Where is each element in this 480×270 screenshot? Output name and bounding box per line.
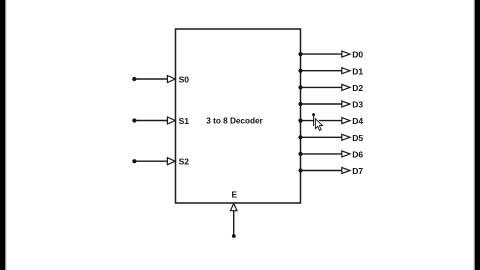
wire D3 [301, 103, 342, 105]
wire D7 [301, 170, 342, 172]
input S0 node dot [132, 77, 136, 81]
svg-text:D6: D6 [352, 150, 363, 160]
svg-text:D3: D3 [352, 100, 363, 110]
mouse cursor marker dot [312, 113, 315, 116]
svg-text:D0: D0 [352, 50, 363, 60]
enable input E [230, 190, 237, 238]
buffer triangle D4 [342, 118, 350, 124]
node dot D6 [298, 152, 302, 156]
input S1 node dot [132, 118, 136, 122]
buffer triangle S1 [167, 117, 175, 124]
buffer triangle D7 [342, 168, 350, 174]
node dot D2 [298, 85, 302, 89]
left black pillar bar [0, 0, 5, 270]
svg-text:D5: D5 [352, 133, 363, 143]
wire D2 [301, 86, 342, 88]
node dot D5 [298, 135, 302, 139]
buffer triangle D3 [342, 101, 350, 107]
mouse cursor marker stem [313, 115, 315, 126]
svg-text:D7: D7 [352, 166, 363, 176]
wire S2 [134, 160, 167, 162]
svg-text:D4: D4 [352, 116, 363, 126]
svg-text:E: E [232, 190, 238, 200]
svg-text:D1: D1 [352, 66, 363, 76]
buffer triangle D1 [342, 68, 350, 74]
wire D5 [301, 136, 342, 138]
output D0 [298, 50, 363, 60]
wire D1 [301, 70, 342, 72]
output D4 [298, 116, 363, 126]
output D7 [298, 166, 363, 176]
svg-text:S2: S2 [179, 157, 190, 167]
node dot D1 [298, 69, 302, 73]
node dot D3 [298, 102, 302, 106]
buffer triangle E (pointing up) [230, 204, 237, 211]
right black pillar bar [475, 0, 480, 270]
wire D4 [301, 120, 342, 122]
svg-text:S0: S0 [179, 74, 190, 84]
wire S0 [134, 78, 167, 80]
buffer triangle D5 [342, 134, 350, 140]
buffer triangle D2 [342, 84, 350, 90]
svg-text:S1: S1 [179, 116, 190, 126]
wire S1 [134, 120, 167, 122]
node dot D7 [298, 168, 302, 172]
input S2 node dot [132, 159, 136, 163]
buffer triangle S0 [167, 76, 175, 83]
output D6 [298, 150, 363, 160]
svg-text:D2: D2 [352, 83, 363, 93]
buffer triangle S2 [167, 158, 175, 165]
output D2 [298, 83, 363, 93]
mouse cursor arrow halo [315, 119, 322, 131]
node dot D0 [298, 52, 302, 56]
mouse cursor arrow [315, 119, 322, 131]
output D1 [298, 66, 363, 76]
output D5 [298, 133, 363, 143]
wire D0 [301, 53, 342, 55]
decoder box U1 (3 to 8 Decoder) [176, 29, 301, 203]
node dot D4 [298, 119, 302, 123]
buffer triangle D6 [342, 151, 350, 157]
svg-text:3 to 8 Decoder: 3 to 8 Decoder [206, 117, 263, 126]
wire E [233, 211, 235, 235]
node dot E [232, 234, 236, 238]
output D3 [298, 100, 363, 110]
wire D6 [301, 153, 342, 155]
buffer triangle D0 [342, 51, 350, 57]
